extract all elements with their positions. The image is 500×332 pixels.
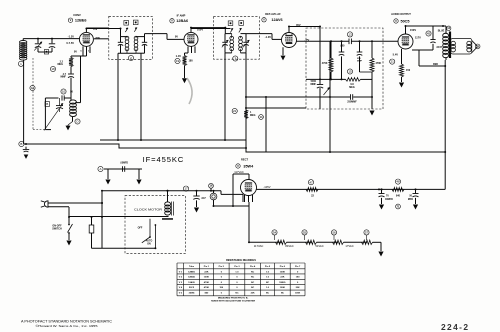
svg-text:18: 18 [51, 67, 55, 71]
svg-text:AUDIO OUTPUT: AUDIO OUTPUT [391, 12, 411, 16]
svg-text:-1.2V: -1.2V [68, 35, 74, 39]
svg-text:NC: NC [251, 271, 255, 273]
svg-text:224-2: 224-2 [441, 322, 469, 332]
svg-text:CLOCK MOTOR: CLOCK MOTOR [134, 208, 162, 212]
svg-text:CONV: CONV [73, 13, 81, 17]
svg-text:0-7.5V: 0-7.5V [66, 41, 74, 45]
svg-text:B: B [46, 102, 48, 106]
svg-text:117VAC: 117VAC [234, 170, 244, 174]
svg-text:17: 17 [184, 187, 188, 191]
svg-text:12BA6: 12BA6 [176, 19, 188, 23]
svg-text:NC: NC [266, 293, 270, 295]
svg-text:51VAC: 51VAC [315, 244, 323, 248]
svg-text:47: 47 [309, 180, 313, 184]
svg-text:0V: 0V [175, 35, 178, 39]
svg-text:48: 48 [396, 180, 400, 184]
svg-text:RED: RED [433, 63, 438, 66]
svg-text:NC: NC [251, 287, 255, 289]
svg-text:55: 55 [303, 230, 307, 234]
svg-text:21: 21 [391, 60, 395, 64]
svg-text:NC: NC [251, 282, 255, 284]
svg-text:TAKEN WITH VACUUM TUBE VOLTMET: TAKEN WITH VACUUM TUBE VOLTMETER [211, 300, 256, 303]
svg-text:MMF: MMF [311, 83, 317, 86]
svg-text:12AV6: 12AV6 [188, 281, 195, 284]
svg-text:470K: 470K [376, 62, 382, 65]
svg-text:84VAC: 84VAC [285, 244, 293, 248]
svg-text:56: 56 [332, 230, 336, 234]
svg-text:12BA6: 12BA6 [188, 276, 196, 279]
svg-text:MEASURED FROM PIN TO B-: MEASURED FROM PIN TO B- [218, 297, 249, 300]
svg-text:Pin 3: Pin 3 [234, 266, 240, 268]
svg-text:19: 19 [176, 59, 180, 63]
svg-text:45: 45 [427, 32, 431, 36]
svg-text:RECT: RECT [241, 158, 248, 162]
svg-text:-1.0V: -1.0V [265, 35, 271, 39]
svg-text:57: 57 [365, 230, 369, 234]
svg-text:22K: 22K [251, 293, 255, 295]
svg-text:MMF: MMF [357, 61, 363, 63]
svg-text:Tube: Tube [189, 266, 195, 268]
svg-text:10: 10 [62, 90, 66, 94]
svg-text:V: V [171, 19, 173, 23]
svg-text:100K: 100K [280, 271, 286, 273]
svg-text:NC: NC [251, 277, 255, 279]
svg-text:MMF: MMF [61, 76, 67, 79]
svg-text:MFD: MFD [408, 198, 413, 201]
svg-text:V: V [237, 164, 239, 168]
svg-text:12BE6: 12BE6 [188, 271, 195, 273]
svg-text:IF AMP: IF AMP [177, 14, 186, 18]
svg-text:NC: NC [266, 282, 270, 284]
svg-text:Pin 5: Pin 5 [265, 266, 271, 268]
svg-text:22: 22 [233, 109, 237, 113]
svg-text:12BE6: 12BE6 [75, 19, 87, 23]
svg-text:54: 54 [273, 230, 277, 234]
svg-text:150: 150 [406, 69, 411, 72]
svg-text:ON: ON [147, 243, 151, 245]
svg-text:470K: 470K [204, 281, 210, 284]
svg-text:16: 16 [31, 86, 35, 90]
svg-text:MEG: MEG [58, 63, 64, 66]
svg-text:Pin 6: Pin 6 [280, 266, 286, 268]
svg-text:22K: 22K [296, 287, 300, 289]
svg-text:117VAC: 117VAC [254, 244, 264, 248]
svg-text:12AV6: 12AV6 [271, 18, 282, 22]
svg-text:-105V: -105V [263, 185, 270, 189]
svg-text:A PHOTOFACT STANDARD NOTATION: A PHOTOFACT STANDARD NOTATION SCHEMATIC [21, 320, 113, 324]
svg-text:100K: 100K [280, 287, 286, 289]
svg-text:©Howard W. Sams & Co., Inc. 19: ©Howard W. Sams & Co., Inc. 1955 [36, 324, 98, 328]
svg-text:.0047: .0047 [436, 46, 443, 49]
svg-text:IF=455KC: IF=455KC [143, 155, 185, 164]
svg-text:100K: 100K [295, 293, 301, 295]
svg-text:35W4: 35W4 [243, 164, 254, 168]
svg-text:15: 15 [348, 70, 352, 74]
svg-text:17VAC: 17VAC [345, 244, 353, 248]
svg-text:22K: 22K [204, 271, 208, 273]
svg-text:NC: NC [281, 293, 285, 295]
svg-text:5.4V: 5.4V [393, 53, 399, 57]
svg-text:50C5: 50C5 [189, 287, 195, 289]
svg-text:470K: 470K [204, 286, 210, 289]
svg-text:180: 180 [189, 60, 194, 63]
svg-text:.05MFD: .05MFD [120, 163, 129, 165]
svg-text:100K: 100K [204, 277, 210, 279]
svg-text:250MMF: 250MMF [347, 101, 357, 104]
svg-text:SWITCH: SWITCH [52, 228, 62, 231]
svg-text:V: V [263, 18, 265, 22]
svg-text:13: 13 [348, 32, 352, 36]
svg-text:V: V [70, 18, 72, 22]
svg-text:0V: 0V [74, 49, 77, 53]
svg-text:B: B [20, 142, 22, 146]
svg-text:Pin 2: Pin 2 [219, 266, 225, 268]
svg-text:50C5: 50C5 [400, 19, 409, 23]
svg-text:70V: 70V [93, 27, 98, 31]
svg-text:Pin 4: Pin 4 [250, 265, 256, 268]
svg-text:NC: NC [235, 293, 239, 295]
svg-text:35W4: 35W4 [189, 292, 195, 295]
svg-text:470K: 470K [322, 62, 328, 65]
svg-text:150V: 150V [410, 28, 416, 32]
svg-text:AUTO: AUTO [146, 239, 153, 242]
svg-text:.047: .047 [201, 197, 206, 200]
svg-text:BLUE: BLUE [438, 29, 445, 32]
svg-text:DET-AVC-AF: DET-AVC-AF [265, 12, 281, 16]
svg-text:Pin 7: Pin 7 [295, 266, 301, 268]
svg-text:40MFD: 40MFD [385, 198, 393, 201]
svg-text:117V: 117V [415, 36, 421, 40]
svg-text:1MEG: 1MEG [279, 282, 285, 284]
svg-text:OFF: OFF [138, 227, 143, 230]
svg-text:.005: .005 [340, 45, 345, 48]
svg-text:V: V [395, 19, 397, 23]
svg-text:A: A [99, 167, 101, 171]
svg-text:Pin 1: Pin 1 [204, 266, 210, 268]
svg-text:MEG: MEG [250, 114, 256, 117]
svg-text:22K: 22K [280, 277, 284, 279]
svg-text:MEG: MEG [349, 86, 355, 89]
svg-text:1.4V: 1.4V [176, 54, 182, 58]
svg-text:D: D [76, 120, 78, 124]
svg-text:840: 840 [396, 195, 401, 198]
svg-text:RESISTANCE READINGS: RESISTANCE READINGS [226, 259, 256, 262]
